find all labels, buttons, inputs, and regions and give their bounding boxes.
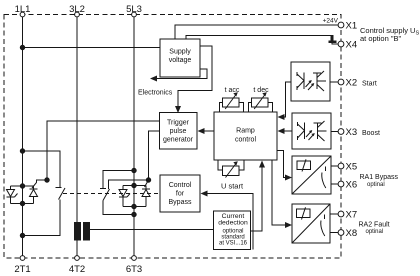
svg-text:Trigger: Trigger [167, 120, 190, 127]
svg-text:Control: Control [169, 182, 192, 189]
node supply tap on L1 [20, 45, 24, 49]
wire bypass branch L3 [103, 171, 134, 189]
wire trigger to ramp [198, 128, 215, 134]
terminal 3L2 [69, 4, 85, 17]
node gate L1 [45, 178, 49, 182]
svg-text:Boost: Boost [362, 130, 380, 137]
svg-text:Supply: Supply [169, 49, 191, 56]
wire supply to X4 [186, 36, 338, 45]
wire X2 opto to ramp [278, 82, 292, 120]
potentiometer t dec [249, 92, 273, 112]
potentiometer U start [218, 160, 244, 178]
wire ramp to RA2 [272, 160, 292, 228]
node L1 box top [20, 184, 24, 188]
node bypass tap L3 [132, 168, 136, 172]
terminal X2 [330, 78, 377, 89]
svg-text:Bypass: Bypass [169, 199, 192, 206]
wire supply to trigger [175, 46, 212, 113]
control for bypass box U6 [160, 175, 200, 212]
wire bypass return L1 [23, 200, 61, 236]
svg-text:3L2: 3L2 [69, 4, 85, 15]
wire current limit to ramp [251, 161, 266, 232]
node L3 box top [132, 183, 136, 187]
svg-text:4T2: 4T2 [69, 264, 85, 275]
svg-text:Electronics: Electronics [138, 90, 173, 97]
svg-text:X7: X7 [346, 210, 358, 221]
wire +24V to X1 [175, 25, 338, 39]
svg-text:X5: X5 [346, 162, 358, 173]
relay RA2 box [292, 204, 330, 243]
svg-text:U start: U start [221, 182, 244, 191]
svg-text:RA1 Bypass: RA1 Bypass [360, 174, 399, 181]
node bypass return L3 [132, 212, 136, 216]
svg-text:1L1: 1L1 [15, 4, 31, 15]
wire gate stub L3 [145, 180, 149, 187]
wire phase L2 [76, 17, 78, 255]
wire phase L3 [133, 17, 135, 255]
thyristor Q1 [7, 190, 18, 198]
svg-text:voltage: voltage [169, 57, 192, 64]
wire supply feed [23, 47, 161, 49]
svg-text:X6: X6 [346, 180, 358, 191]
node bypass tap L1 [20, 149, 24, 153]
svg-text:X8: X8 [346, 228, 358, 239]
mechanical linkage dashed [63, 193, 160, 195]
current detection box U7 [214, 211, 251, 250]
plug symbol at X4 [329, 35, 337, 43]
thyristor pair box L3 [123, 186, 146, 207]
thyristor Q2 [30, 189, 38, 197]
electronics arrow [150, 69, 207, 82]
wire gate bus L1 [47, 121, 160, 180]
node L1 box bottom [20, 201, 24, 205]
node bypass return L1 [20, 233, 24, 237]
svg-text:5L3: 5L3 [126, 4, 142, 15]
svg-text:t dec: t dec [253, 87, 269, 94]
node gate L3 [146, 178, 150, 182]
svg-text:pulse: pulse [170, 128, 187, 135]
terminal 6T3 [126, 256, 142, 275]
enclosure dashed border [4, 15, 341, 259]
thyristor Q4 [142, 189, 150, 197]
wire bypass branch L1 [23, 151, 61, 187]
wire gate spur L3 [109, 180, 149, 189]
wire phase L1 [22, 17, 24, 255]
bypass contact K2 [100, 189, 110, 201]
svg-text:X4: X4 [346, 40, 358, 51]
svg-text:2T1: 2T1 [14, 264, 30, 275]
svg-text:dedection: dedection [218, 220, 248, 227]
svg-text:Ramp: Ramp [236, 128, 255, 135]
wire ramp to RA1 [277, 151, 292, 181]
supply voltage box U1 [160, 39, 200, 77]
terminal 5L3 [126, 4, 142, 17]
svg-text:X2: X2 [346, 78, 358, 89]
annotation RA1 [360, 174, 399, 188]
annotation RA2 [359, 222, 390, 236]
svg-text:+24V: +24V [323, 18, 339, 25]
opto symbol X3 [298, 121, 327, 141]
svg-text:at VSI...16: at VSI...16 [219, 240, 248, 246]
current transformer CT [74, 222, 90, 241]
wire X3 opto to ramp [278, 128, 293, 134]
svg-text:for: for [176, 191, 185, 198]
svg-text:X3: X3 [346, 127, 358, 138]
terminal X8 [330, 228, 357, 239]
svg-text:generator: generator [163, 137, 194, 144]
terminal 2T1 [14, 256, 30, 275]
svg-text:at option "B": at option "B" [360, 34, 402, 43]
terminal X5 [331, 162, 357, 173]
svg-text:t acc: t acc [225, 87, 240, 94]
svg-text:6T3: 6T3 [126, 264, 142, 275]
potentiometer t acc [220, 92, 244, 112]
svg-text:RA2 Fault: RA2 Fault [359, 222, 390, 229]
ramp control box U3 [214, 112, 277, 160]
bypass contact K1 [56, 188, 66, 200]
trigger pulse generator box U2 [160, 113, 198, 150]
thyristor pair box L1 [11, 186, 34, 204]
terminal 1L1 [15, 4, 31, 17]
wire gate stub L1 [32, 180, 47, 188]
annotation control supply [360, 26, 419, 43]
terminal X1 [338, 21, 357, 32]
wire CT secondary [90, 229, 214, 231]
opto X3 box U5 [292, 113, 331, 149]
terminal X7 [330, 210, 357, 221]
svg-text:optinal: optinal [367, 182, 385, 188]
thyristor Q3 [119, 190, 130, 198]
wire bypass return L3 [103, 201, 134, 215]
svg-text:optinal: optinal [366, 229, 384, 235]
node L3 box bottom [132, 204, 136, 208]
wire gate bus L3 [149, 131, 160, 180]
svg-text:X1: X1 [346, 21, 358, 32]
relay RA1 box [292, 156, 331, 194]
terminal X6 [331, 180, 357, 191]
wire current to control [201, 191, 254, 250]
opto X2 box U4 [291, 62, 330, 101]
terminal X3 [331, 127, 380, 138]
svg-text:control: control [235, 137, 256, 144]
terminal X4 [338, 40, 357, 51]
svg-text:Start: Start [362, 81, 377, 88]
terminal 4T2 [69, 256, 85, 275]
opto symbol X2 [297, 71, 326, 91]
